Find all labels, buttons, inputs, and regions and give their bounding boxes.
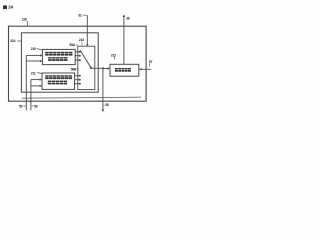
box210 output contact lines xyxy=(75,52,79,60)
output line 38 xyxy=(123,17,125,64)
leader 59A xyxy=(76,44,78,46)
output line 56 xyxy=(102,68,104,109)
svg-text:58: 58 xyxy=(34,104,38,108)
svg-text:214: 214 xyxy=(10,39,15,43)
svg-text:211: 211 xyxy=(31,71,36,75)
svg-text:59B: 59B xyxy=(71,67,77,71)
leader 59 xyxy=(24,105,26,107)
junction node 56 xyxy=(102,67,104,69)
box 210 text line1 xyxy=(45,52,72,56)
feeder line 58 xyxy=(30,80,32,111)
leader 56 xyxy=(104,104,105,106)
feeder line 59 xyxy=(25,55,27,110)
svg-text:24: 24 xyxy=(8,5,13,10)
contact dots A xyxy=(79,51,81,53)
box 210 text line2 xyxy=(48,57,67,61)
input arrow box211 lower xyxy=(31,85,40,87)
leader 220 xyxy=(26,21,28,26)
input arrow box210 lower xyxy=(26,60,40,62)
control line 81 xyxy=(86,15,88,44)
memory box 211 xyxy=(42,73,75,89)
selector box xyxy=(78,46,95,89)
outer enclosure 220 xyxy=(9,26,147,101)
box 211 text line1 xyxy=(45,75,72,79)
svg-text:38: 38 xyxy=(126,16,130,20)
svg-text:56: 56 xyxy=(105,103,109,107)
leader 214 xyxy=(17,40,21,42)
svg-text:81: 81 xyxy=(78,14,82,18)
input arrow box211 upper xyxy=(31,79,40,81)
leader 57 xyxy=(148,63,151,66)
leader 81 xyxy=(83,14,86,16)
input line 57 xyxy=(140,68,151,70)
svg-text:59A: 59A xyxy=(69,43,75,47)
contact dots B xyxy=(79,75,81,77)
svg-text:57: 57 xyxy=(149,60,153,64)
box 212 text xyxy=(115,68,131,72)
figure title 図24 xyxy=(3,5,14,10)
wiper pivot dot xyxy=(90,67,92,69)
memory box 210 xyxy=(42,49,75,64)
svg-text:220: 220 xyxy=(22,18,27,22)
svg-text:212: 212 xyxy=(111,53,116,57)
svg-text:210: 210 xyxy=(31,47,36,51)
selector wiper xyxy=(80,50,91,67)
svg-text:59: 59 xyxy=(19,105,23,109)
selector output wire xyxy=(91,67,108,69)
leader 213 xyxy=(81,42,83,46)
inner baseline xyxy=(22,97,141,98)
leader 211 xyxy=(37,72,41,75)
processing box 212 xyxy=(110,64,139,76)
input arrow box210 upper xyxy=(26,54,40,56)
leader 58 xyxy=(32,105,34,107)
inner block 214 xyxy=(21,33,98,92)
leader 210 xyxy=(37,49,42,50)
svg-text:213: 213 xyxy=(79,38,84,42)
box 211 text line2 xyxy=(48,81,67,85)
leader 59B xyxy=(77,68,78,70)
box211 output contact lines xyxy=(75,76,80,84)
leader 212 xyxy=(113,57,115,59)
